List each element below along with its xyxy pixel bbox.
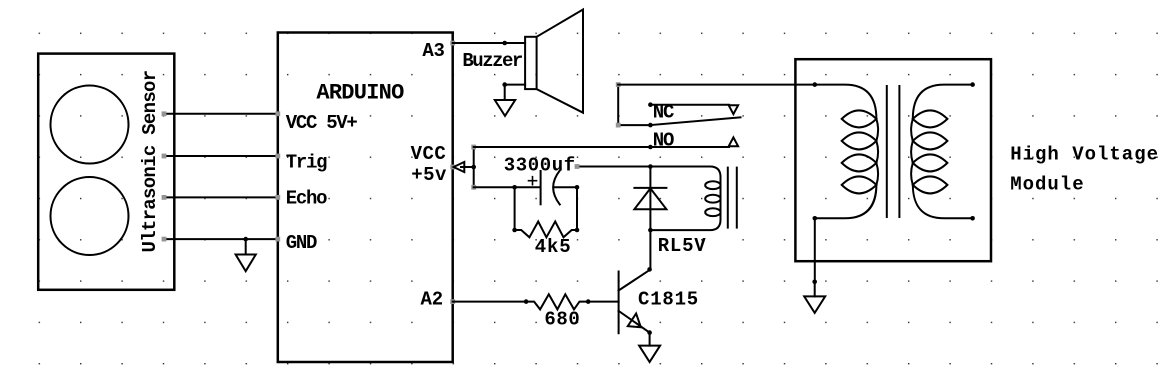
svg-text:C1815: C1815 <box>638 289 699 311</box>
NC contact triangle <box>729 105 738 114</box>
junction coil bottom <box>648 228 653 233</box>
relay armature pivot <box>648 123 653 128</box>
wire transformer to ground <box>814 218 816 281</box>
wire Echo <box>162 195 281 200</box>
ground symbol (sensor GND) <box>236 239 256 271</box>
High Voltage Module box <box>795 59 991 261</box>
wire A3 to buzzer <box>453 42 525 44</box>
svg-text:4k5: 4k5 <box>535 236 572 258</box>
resistor 4k5 <box>515 222 577 238</box>
junction collector <box>647 267 652 272</box>
junction emitter <box>647 330 652 335</box>
junction NO pin <box>648 145 653 150</box>
svg-text:Ultrasonic Sensor: Ultrasonic Sensor <box>139 70 161 252</box>
wire VCC pin to rail <box>461 166 474 168</box>
ultrasonic sensor box <box>38 54 174 290</box>
svg-text:High Voltage: High Voltage <box>1010 144 1159 166</box>
junction right rail top <box>575 185 580 190</box>
junction ground node <box>812 280 817 285</box>
wire VCC 5V+ (sensor to Arduino) <box>162 111 281 116</box>
svg-text:Buzzer: Buzzer <box>462 50 523 72</box>
resistor 4k5 left lead <box>514 187 516 230</box>
svg-text:ARDUINO: ARDUINO <box>316 80 404 105</box>
svg-text:VCC 5V+: VCC 5V+ <box>286 112 358 134</box>
wire GND <box>162 237 281 242</box>
svg-text:A3: A3 <box>422 40 444 62</box>
junction VCC rail <box>471 165 476 170</box>
wire VCC rail to capacitor <box>474 186 540 188</box>
svg-text:RL5V: RL5V <box>658 235 707 257</box>
ground symbol (HV module) <box>804 282 825 313</box>
junction 4k5 right <box>575 228 580 233</box>
resistor 4k5 right lead rail <box>576 187 578 230</box>
junction 4k5 left <box>512 228 517 233</box>
transistor Q1 C1815 <box>619 270 650 333</box>
pin A2 <box>421 289 456 311</box>
NO contact triangle <box>729 137 738 146</box>
svg-text:NC: NC <box>653 101 674 123</box>
junction on GND wire <box>243 237 248 242</box>
node VCC rail vertical <box>471 145 476 190</box>
relay armature blade <box>650 117 740 125</box>
svg-text:Trig: Trig <box>286 151 327 173</box>
svg-text:GND: GND <box>286 232 317 254</box>
diode D1 <box>634 167 666 231</box>
transformer primary winding <box>815 85 878 219</box>
wire coil bottom to collector <box>649 230 651 269</box>
NC contact line <box>650 104 729 106</box>
buzzer LS1 speaker <box>525 10 583 113</box>
transformer primary pins <box>813 82 818 220</box>
transducer circle top <box>51 86 129 164</box>
svg-text:680: 680 <box>544 308 580 330</box>
relay coil RL5V <box>650 167 736 231</box>
transducer circle bottom <box>51 177 129 255</box>
svg-text:+5v: +5v <box>411 164 447 186</box>
wire right rail to relay coil <box>575 164 651 169</box>
wire Trig <box>162 154 281 159</box>
wire capacitor to right rail <box>554 186 577 188</box>
pin A3 <box>422 40 455 62</box>
capacitor C1 3300uf <box>529 171 560 205</box>
wire A2 to resistor 680 <box>453 301 526 303</box>
svg-text:NO: NO <box>653 129 674 151</box>
svg-text:A2: A2 <box>421 289 444 311</box>
wire 680 to base <box>588 301 618 303</box>
wire VCC to NO contact <box>474 146 729 148</box>
NC contact pin <box>648 102 653 107</box>
svg-text:Echo: Echo <box>286 188 327 210</box>
svg-text:VCC: VCC <box>411 143 447 165</box>
Arduino box U1 <box>278 33 453 363</box>
junction 680 right <box>586 299 591 304</box>
wire common to transformer <box>618 84 815 86</box>
svg-text:3300uf: 3300uf <box>504 154 576 176</box>
transformer secondary pins <box>970 82 975 220</box>
transformer secondary winding <box>911 85 973 219</box>
wire armature to common <box>616 82 651 127</box>
transformer core <box>887 86 900 217</box>
buzzer pin 2 lead <box>505 84 525 86</box>
junction diode cathode node <box>648 164 653 169</box>
svg-text:Module: Module <box>1010 173 1084 195</box>
ground symbol (transistor emitter) <box>639 333 660 362</box>
junction buzzer pin 2 <box>502 82 507 87</box>
junction 680 left <box>524 299 529 304</box>
junction cap/resistor left <box>512 185 517 190</box>
junction buzzer pin 1 <box>502 41 507 46</box>
pin VCC +5v <box>411 143 465 186</box>
ground symbol (buzzer) <box>495 85 515 116</box>
resistor 680 <box>526 294 588 309</box>
